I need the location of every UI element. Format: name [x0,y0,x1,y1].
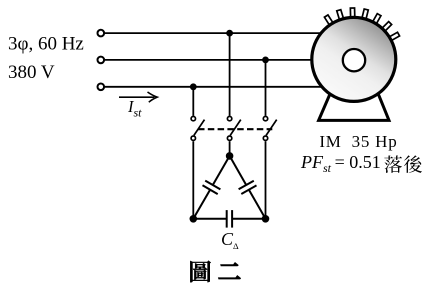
node junction phase A [226,30,233,37]
wire tap drop middle [229,33,231,116]
source terminal 1 [98,30,105,37]
label PFst = 0.51 lagging [300,152,422,175]
label 3-phase 60Hz [8,34,84,55]
svg-text:3φ, 60 Hz: 3φ, 60 Hz [8,34,84,55]
source terminal 3 [98,84,105,91]
svg-text:380 V: 380 V [8,62,55,83]
current arrow Ist [119,92,157,102]
motor cooling fins [324,8,399,41]
wire phase A top [105,32,340,34]
label 380 V [8,62,55,83]
switch S2 [227,116,240,140]
figure caption: Figure 2 [190,261,240,283]
wire phase B middle [105,59,340,61]
label Ist [127,97,142,120]
svg-text:IM 35 Hp: IM 35 Hp [319,132,397,151]
wire tap drop right [265,60,267,116]
node junction phase C [190,83,197,90]
wire tap drop left [192,87,194,116]
wire switch to delta apex [229,141,231,156]
node delta apex [226,152,234,160]
source terminal 2 [98,57,105,64]
capacitor delta left side [193,156,229,219]
wire phase C bottom [105,86,340,88]
node delta bottom-right [262,215,270,223]
capacitor delta bottom side [193,210,265,228]
wire switch to delta left [192,141,194,219]
motor body IM [312,17,396,101]
svg-text:PFst = 0.51: PFst = 0.51 [300,152,381,175]
switch S3 [263,116,276,140]
label IM 35 Hp [319,132,397,151]
svg-text:Ist: Ist [127,97,142,120]
wire switch to delta right [265,141,267,219]
ganged switch dashed link [198,128,272,130]
node junction phase B [262,57,269,64]
svg-text:CΔ: CΔ [221,229,239,251]
motor stand [319,93,389,120]
capacitor delta right side [230,156,266,219]
node delta bottom-left [190,215,198,223]
switch S1 [191,116,204,140]
label C-delta [221,229,239,251]
